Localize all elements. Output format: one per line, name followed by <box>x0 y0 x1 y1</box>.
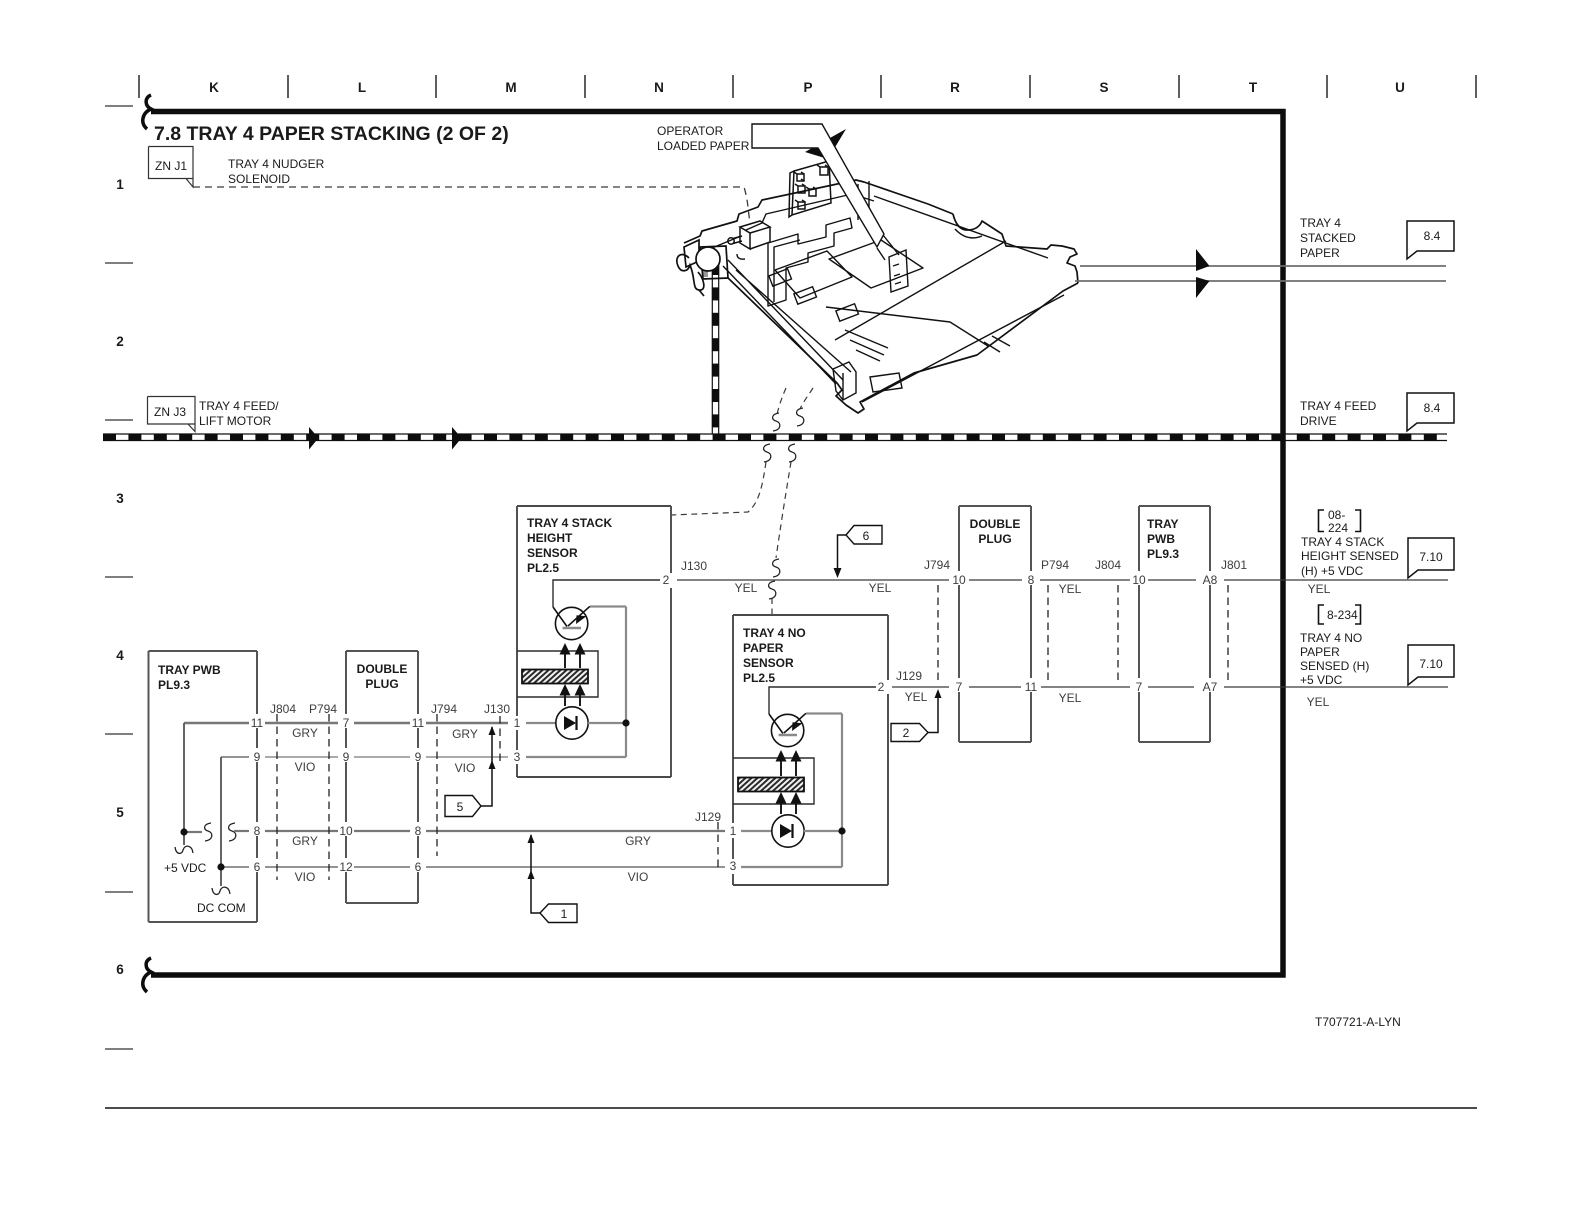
svg-text:J804: J804 <box>1095 558 1121 572</box>
flag 5 with up arrows <box>445 726 496 817</box>
wire: VIO row J804-9 to J130-3 <box>265 756 508 758</box>
svg-text:12: 12 <box>339 860 353 874</box>
flag 1 with up arrows <box>528 834 578 923</box>
svg-text:3: 3 <box>514 750 521 764</box>
flag 2 with up arrow <box>891 689 942 742</box>
footer rule <box>105 1107 1477 1109</box>
svg-text:HEIGHT: HEIGHT <box>527 531 573 545</box>
arrow: stacked paper direction <box>1196 249 1210 271</box>
frame border <box>143 95 1286 992</box>
svg-text:J129: J129 <box>896 669 922 683</box>
light arrows upper pair <box>564 652 566 668</box>
LED D stack height <box>556 707 588 739</box>
wire: pin8 stub <box>234 830 249 832</box>
tray interior: corner post <box>833 362 856 400</box>
svg-text:7.10: 7.10 <box>1419 657 1443 671</box>
wire: collector to junction <box>526 607 626 758</box>
svg-text:8: 8 <box>1028 573 1035 587</box>
wire: emitter loop no paper <box>733 758 814 804</box>
svg-text:TRAY 4 STACK: TRAY 4 STACK <box>1301 535 1384 549</box>
svg-text:1: 1 <box>561 907 568 921</box>
break squiggle +5 stub <box>205 823 212 841</box>
tray nudger solenoid block <box>728 221 770 249</box>
svg-text:YEL: YEL <box>1307 695 1330 709</box>
svg-text:A7: A7 <box>1203 680 1218 694</box>
svg-text:(H) +5 VDC: (H) +5 VDC <box>1301 564 1364 578</box>
flag 8.4 stacked paper <box>1407 221 1454 259</box>
phototransistor Q stack height <box>555 607 587 639</box>
svg-text:10: 10 <box>1132 573 1146 587</box>
wire: YEL row stack height signal <box>677 579 1448 581</box>
svg-text:J804: J804 <box>270 702 296 716</box>
label: 8-234 bracket <box>1319 605 1361 624</box>
svg-text:8-234: 8-234 <box>1327 608 1358 622</box>
svg-text:STACKED: STACKED <box>1300 231 1356 245</box>
svg-text:TRAY 4 NO: TRAY 4 NO <box>743 626 806 640</box>
svg-text:PWB: PWB <box>1147 532 1175 546</box>
svg-text:7.10: 7.10 <box>1419 550 1443 564</box>
svg-text:SENSOR: SENSOR <box>743 656 794 670</box>
svg-text:J129: J129 <box>695 810 721 824</box>
wire: no paper sensor pin 2 internal <box>769 687 876 714</box>
svg-text:OPERATOR: OPERATOR <box>657 124 724 138</box>
wire: collector to junction no paper <box>741 714 842 868</box>
wire: VIO row J804-6 to J129-3 <box>265 866 725 868</box>
connector: double plug (right) box <box>959 506 1031 742</box>
svg-text:GRY: GRY <box>625 834 651 848</box>
sensor: tray 4 no paper sensor PL2.5 box <box>733 615 888 885</box>
svg-text:4: 4 <box>116 648 124 663</box>
connector P794 (left) <box>328 714 330 880</box>
svg-text:YEL: YEL <box>1308 582 1331 596</box>
connector J794 (right) <box>937 585 939 684</box>
svg-text:TRAY 4: TRAY 4 <box>1300 216 1341 230</box>
wire: DC COM rail <box>221 757 249 886</box>
tray interior: lift bracket <box>768 218 852 306</box>
svg-text:TRAY: TRAY <box>1147 517 1179 531</box>
svg-text:J130: J130 <box>681 559 707 573</box>
svg-text:P: P <box>803 80 812 95</box>
svg-text:9: 9 <box>415 750 422 764</box>
svg-text:VIO: VIO <box>295 760 316 774</box>
svg-text:+5 VDC: +5 VDC <box>1300 673 1343 687</box>
svg-text:DC COM: DC COM <box>197 901 246 915</box>
wire: GRY row J804-8 to J129-1 <box>265 830 725 832</box>
svg-text:YEL: YEL <box>735 581 758 595</box>
connector J804 (left) <box>276 714 278 880</box>
wire: +5VDC rail <box>184 723 249 845</box>
svg-text:M: M <box>505 80 516 95</box>
svg-text:TRAY 4 NO: TRAY 4 NO <box>1300 631 1362 645</box>
svg-text:7: 7 <box>1136 680 1143 694</box>
sensor: tray 4 stack height sensor PL2.5 box <box>517 506 671 777</box>
junction dot no paper <box>838 827 845 834</box>
svg-text:K: K <box>209 80 219 95</box>
flag actuator (hatched) stack height <box>522 670 588 684</box>
svg-text:PL9.3: PL9.3 <box>1147 547 1179 561</box>
flag 7.10 no paper <box>1408 645 1454 685</box>
svg-text:7: 7 <box>956 680 963 694</box>
svg-text:U: U <box>1395 80 1405 95</box>
svg-text:GRY: GRY <box>452 727 478 741</box>
svg-text:08-: 08- <box>1328 508 1345 522</box>
tray 4 isometric illustration: outer silhouette <box>684 180 1078 413</box>
wire: LED row pin 1 <box>526 722 626 724</box>
svg-text:R: R <box>950 80 960 95</box>
flag 6 with down arrow <box>834 526 883 579</box>
svg-text:8: 8 <box>254 824 261 838</box>
svg-text:SENSED (H): SENSED (H) <box>1300 659 1369 673</box>
wire: LED row pin 1 no paper <box>741 830 842 832</box>
svg-text:1: 1 <box>730 824 737 838</box>
svg-text:6: 6 <box>116 962 124 977</box>
junction dot +5VDC <box>180 828 187 835</box>
svg-text:9: 9 <box>343 750 350 764</box>
svg-text:GRY: GRY <box>292 726 318 740</box>
svg-text:VIO: VIO <box>455 761 476 775</box>
leader banner: operator loaded paper <box>752 124 884 247</box>
svg-text:PAPER: PAPER <box>1300 246 1340 260</box>
wire: tray 4 feed drive checkered bus <box>103 427 1447 450</box>
svg-text:TRAY 4 FEED: TRAY 4 FEED <box>1300 399 1377 413</box>
break squiggle pin8 stub <box>229 823 236 841</box>
svg-text:1: 1 <box>116 177 124 192</box>
light arrows upper pair no paper <box>780 759 782 776</box>
svg-text:TRAY PWB: TRAY PWB <box>158 663 221 677</box>
svg-text:9: 9 <box>254 750 261 764</box>
svg-text:T707721-A-LYN: T707721-A-LYN <box>1315 1015 1401 1029</box>
svg-text:PAPER: PAPER <box>1300 645 1340 659</box>
svg-text:P794: P794 <box>1041 558 1069 572</box>
connector J129 (left) <box>717 822 719 872</box>
svg-text:TRAY 4 STACK: TRAY 4 STACK <box>527 516 612 530</box>
svg-text:8: 8 <box>415 824 422 838</box>
tray interior: paper stack quads <box>775 240 923 298</box>
svg-text:2: 2 <box>878 680 885 694</box>
svg-text:J794: J794 <box>924 558 950 572</box>
svg-text:J130: J130 <box>484 702 510 716</box>
wire: checkered drive link from tray nudger roller <box>712 262 719 434</box>
svg-text:6: 6 <box>254 860 261 874</box>
IC: tray PWB PL9.3 (left) box <box>149 651 258 922</box>
wire: dashed link tray to stack height sensor <box>671 388 786 515</box>
svg-text:8.4: 8.4 <box>1424 229 1441 243</box>
svg-text:6: 6 <box>415 860 422 874</box>
tray front face handle slot <box>870 373 902 392</box>
svg-text:LIFT MOTOR: LIFT MOTOR <box>199 414 272 428</box>
svg-text:5: 5 <box>457 800 464 814</box>
svg-text:3: 3 <box>116 491 124 506</box>
svg-text:2: 2 <box>663 573 670 587</box>
svg-text:SENSOR: SENSOR <box>527 546 578 560</box>
connector J804 (right) <box>1117 585 1119 684</box>
svg-text:10: 10 <box>952 573 966 587</box>
svg-text:11: 11 <box>1025 680 1038 694</box>
svg-text:YEL: YEL <box>905 690 928 704</box>
svg-text:YEL: YEL <box>869 581 892 595</box>
svg-text:ZN J1: ZN J1 <box>155 159 187 173</box>
svg-text:L: L <box>358 80 366 95</box>
flag 7.10 stack height <box>1408 538 1454 578</box>
light arrows lower pair <box>564 693 566 706</box>
svg-text:TRAY 4 NUDGER: TRAY 4 NUDGER <box>228 157 325 171</box>
svg-text:J801: J801 <box>1221 558 1247 572</box>
leader banner continuation lines <box>877 235 899 260</box>
svg-text:YEL: YEL <box>1059 691 1082 705</box>
svg-text:5: 5 <box>116 805 124 820</box>
tray interior: guide clips <box>737 254 858 321</box>
connector J801 <box>1227 585 1229 684</box>
svg-text:P794: P794 <box>309 702 337 716</box>
svg-text:VIO: VIO <box>295 870 316 884</box>
svg-text:PL2.5: PL2.5 <box>743 671 775 685</box>
wire: tray 4 stacked paper lines <box>1075 266 1446 281</box>
arrow: operator loaded paper arrowhead <box>805 129 846 159</box>
column ruler letters <box>139 75 1476 98</box>
wire: YEL row no paper signal <box>892 686 1448 688</box>
svg-text:+5 VDC: +5 VDC <box>164 861 207 875</box>
tray interior: walls and floor <box>712 181 1064 402</box>
IC: tray PWB PL9.3 (right) box <box>1139 506 1210 742</box>
flag actuator (hatched) no paper <box>738 778 804 792</box>
label: 08-224 bracket <box>1319 508 1361 535</box>
svg-text:SOLENOID: SOLENOID <box>228 172 290 186</box>
tray paper-size PCB plate <box>789 161 831 217</box>
svg-text:2: 2 <box>116 334 124 349</box>
svg-text:GRY: GRY <box>292 834 318 848</box>
svg-text:3: 3 <box>730 859 737 873</box>
svg-text:2: 2 <box>903 726 910 740</box>
tray interior: end guide <box>889 250 908 292</box>
svg-text:10: 10 <box>339 824 353 838</box>
svg-text:YEL: YEL <box>1059 582 1082 596</box>
wire: GRY row J804-11 to J130-1 <box>265 722 508 725</box>
svg-text:DOUBLE: DOUBLE <box>357 662 408 676</box>
svg-text:LOADED PAPER: LOADED PAPER <box>657 139 750 153</box>
connector J130 (left) <box>499 716 501 762</box>
wire: ZN J1 dashed line to solenoid <box>193 187 750 223</box>
svg-text:8.4: 8.4 <box>1424 401 1441 415</box>
row ruler numbers <box>105 106 133 1049</box>
svg-text:T: T <box>1249 80 1258 95</box>
svg-text:1: 1 <box>514 716 521 730</box>
junction dot DC COM <box>217 863 224 870</box>
svg-text:S: S <box>1099 80 1108 95</box>
wire: emitter loop <box>517 651 598 697</box>
svg-text:11: 11 <box>412 716 425 730</box>
svg-text:PLUG: PLUG <box>365 677 398 691</box>
svg-text:7: 7 <box>343 716 350 730</box>
svg-text:PL2.5: PL2.5 <box>527 561 559 575</box>
svg-text:11: 11 <box>251 716 264 730</box>
svg-text:PLUG: PLUG <box>978 532 1011 546</box>
connector box ZN J3 <box>148 397 196 432</box>
connector box ZN J1 <box>149 147 194 188</box>
svg-text:PAPER: PAPER <box>743 641 784 655</box>
svg-text:HEIGHT SENSED: HEIGHT SENSED <box>1301 549 1399 563</box>
flag 8.4 feed drive <box>1407 393 1454 431</box>
wire: dashed link tray to no paper sensor <box>772 388 813 615</box>
wire: stack height sensor pin 2 internal <box>553 580 660 607</box>
svg-text:VIO: VIO <box>628 870 649 884</box>
svg-text:7.8 TRAY 4 PAPER STACKING (2 O: 7.8 TRAY 4 PAPER STACKING (2 OF 2) <box>154 123 509 145</box>
connector J794 (left) <box>436 714 438 856</box>
tray nudger roller bracket <box>677 240 728 296</box>
svg-text:224: 224 <box>1328 521 1348 535</box>
svg-text:TRAY 4 FEED/: TRAY 4 FEED/ <box>199 399 279 413</box>
junction dot stack height <box>622 719 629 726</box>
svg-text:DRIVE: DRIVE <box>1300 414 1337 428</box>
svg-text:ZN J3: ZN J3 <box>154 405 186 419</box>
svg-text:6: 6 <box>863 529 870 543</box>
light arrows lower pair no paper <box>780 801 782 814</box>
break squiggle +5 rail end <box>175 846 193 853</box>
svg-text:J794: J794 <box>431 702 457 716</box>
phototransistor Q no paper <box>771 714 803 746</box>
svg-text:A8: A8 <box>1203 573 1218 587</box>
LED D no paper <box>772 815 804 847</box>
svg-text:DOUBLE: DOUBLE <box>970 517 1021 531</box>
svg-text:N: N <box>654 80 664 95</box>
break squiggle DC COM end <box>212 887 230 894</box>
connector P794 (right) <box>1047 585 1049 684</box>
connector: double plug (left) box <box>346 651 418 903</box>
svg-text:PL9.3: PL9.3 <box>158 678 190 692</box>
